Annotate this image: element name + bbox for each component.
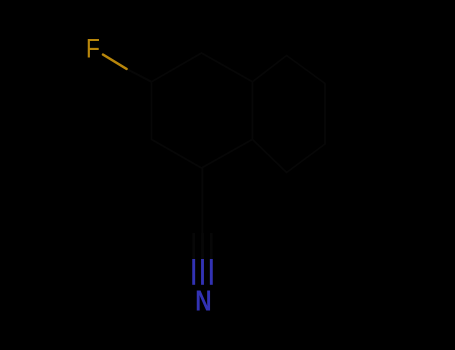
svg-text:N: N: [195, 284, 211, 317]
triple bond C#N dark half (3 lines, carbon side): [192, 233, 195, 259]
ring 2 (right fused ring outline): [252, 56, 325, 173]
ring 1 (left benzene ring outline): [152, 53, 253, 168]
triple bond C#N blue half (3 lines, nitrogen side): [192, 259, 195, 285]
bond C3-F gold half (fluorine side): [103, 55, 127, 69]
svg-text:F: F: [86, 34, 100, 64]
bond C3-F dark half (carbon side): [127, 69, 152, 82]
bond ring-to-nitrile-carbon (invisible black): [201, 168, 203, 233]
